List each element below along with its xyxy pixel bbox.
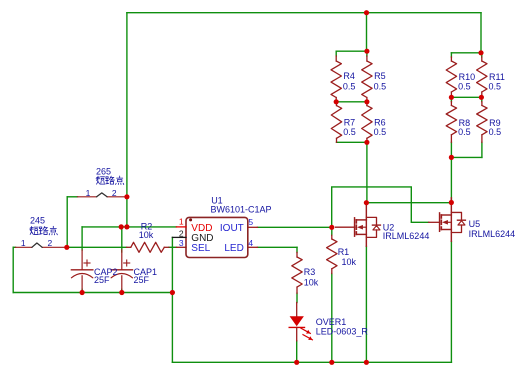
svg-text:R5: R5 bbox=[374, 71, 386, 81]
svg-text:LED: LED bbox=[224, 243, 243, 254]
svg-text:10k: 10k bbox=[304, 277, 319, 287]
svg-text:4: 4 bbox=[248, 238, 253, 248]
svg-text:BW6101-C1AP: BW6101-C1AP bbox=[211, 204, 272, 214]
svg-text:0.5: 0.5 bbox=[458, 127, 471, 137]
svg-text:R11: R11 bbox=[489, 72, 505, 82]
svg-text:IOUT: IOUT bbox=[220, 223, 244, 234]
svg-text:0.5: 0.5 bbox=[489, 127, 502, 137]
svg-text:2: 2 bbox=[179, 228, 184, 238]
svg-text:R6: R6 bbox=[374, 117, 386, 127]
svg-text:0.5: 0.5 bbox=[374, 127, 387, 137]
svg-text:0.5: 0.5 bbox=[489, 82, 502, 92]
svg-text:265: 265 bbox=[96, 166, 111, 176]
svg-text:R3: R3 bbox=[304, 267, 316, 277]
svg-text:10k: 10k bbox=[342, 257, 357, 267]
svg-text:1: 1 bbox=[179, 217, 184, 227]
svg-text:25F: 25F bbox=[94, 275, 110, 285]
svg-text:IRLML6244: IRLML6244 bbox=[383, 231, 430, 241]
svg-text:R1: R1 bbox=[338, 247, 350, 257]
svg-text:LED-0603_R: LED-0603_R bbox=[316, 326, 369, 336]
svg-text:2: 2 bbox=[112, 188, 117, 198]
svg-text:R4: R4 bbox=[343, 71, 355, 81]
svg-text:0.5: 0.5 bbox=[343, 81, 356, 91]
svg-text:0.5: 0.5 bbox=[343, 127, 356, 137]
svg-text:IRLML6244: IRLML6244 bbox=[469, 229, 516, 239]
svg-text:2: 2 bbox=[48, 238, 53, 248]
svg-text:R7: R7 bbox=[344, 117, 356, 127]
svg-text:R10: R10 bbox=[459, 72, 476, 82]
svg-text:3: 3 bbox=[179, 238, 184, 248]
svg-text:25F: 25F bbox=[134, 275, 150, 285]
svg-text:U5: U5 bbox=[469, 219, 481, 229]
svg-text:0.5: 0.5 bbox=[458, 82, 471, 92]
svg-text:245: 245 bbox=[30, 215, 45, 225]
svg-text:1: 1 bbox=[86, 188, 91, 198]
svg-text:10k: 10k bbox=[139, 230, 154, 240]
svg-text:SEL: SEL bbox=[191, 243, 210, 254]
svg-text:5: 5 bbox=[248, 217, 253, 227]
svg-text:1: 1 bbox=[21, 238, 26, 248]
svg-text:0.5: 0.5 bbox=[374, 81, 387, 91]
